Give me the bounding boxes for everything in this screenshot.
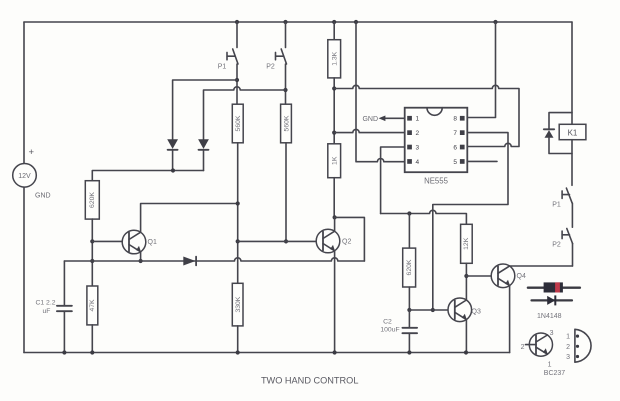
capacitor C2 100uF [380, 310, 417, 353]
transistor BC237 symbol [521, 330, 566, 377]
resistor R4 1K [328, 144, 341, 178]
wire 1.3K bottom to 1K top [333, 78, 335, 144]
resistor R7 330K [232, 283, 243, 326]
diode D1 [167, 139, 178, 170]
wire P2 junction to right diode column (hop over P1 column) [204, 87, 286, 139]
node dot 620K top [407, 211, 411, 215]
node dot top rail P1 [235, 20, 239, 24]
diode 1N4148 package drawing [528, 282, 580, 292]
node dot 330K bottom rail [236, 350, 240, 354]
svg-text:330K: 330K [235, 296, 242, 312]
wire pin 6 right up and left to divider (hops at pin7 col and pin8 col) [334, 85, 519, 146]
wire R1 bottom long column through Q1 collector node and Q2 base node [237, 143, 239, 283]
svg-text:2: 2 [416, 130, 420, 137]
svg-text:GND: GND [362, 116, 378, 123]
node dot x92 y261 [90, 259, 94, 263]
node dot Q2 base (R2 column) [284, 239, 288, 243]
wire Q4 emitter down joins bottom rail end [509, 286, 511, 353]
svg-text:8: 8 [453, 116, 457, 123]
wire left rail lower [23, 187, 25, 352]
svg-text:P1: P1 [218, 64, 227, 71]
svg-text:Q1: Q1 [148, 239, 157, 246]
wire Q4 collector right to relay contacts column [510, 265, 573, 267]
svg-text:12K: 12K [463, 237, 470, 250]
svg-text:P1: P1 [552, 201, 561, 208]
svg-text:BC237: BC237 [544, 370, 566, 377]
wire Q2 base [238, 240, 323, 242]
svg-text:Q4: Q4 [517, 273, 526, 280]
wire K1 bottom to contact P1 [571, 140, 573, 186]
resistor R9 12K [461, 224, 473, 263]
node dot Q2 emitter rail [333, 350, 337, 354]
wire Q3 emitter to rail [465, 320, 467, 353]
svg-text:1: 1 [566, 334, 570, 341]
svg-text:GND: GND [35, 193, 51, 200]
switch P1 pushbutton [218, 22, 238, 104]
relay K1 [559, 124, 586, 139]
node dot Q3 emitter rail [464, 350, 468, 354]
switch contact P1 [552, 188, 572, 208]
svg-text:3: 3 [416, 145, 420, 152]
wire Q2 emitter down to rail [334, 251, 336, 353]
switch P2 pushbutton [266, 22, 286, 104]
wire Q1 emitter down [140, 252, 142, 261]
wire 620K bottom through Q1 base node to 47K [91, 219, 93, 286]
wire pin3 run to 12K (hop at pin7 column) [381, 210, 467, 224]
svg-text:C2: C2 [383, 318, 392, 325]
svg-text:12V: 12V [18, 173, 31, 180]
wire 47K bottom to rail [91, 325, 93, 353]
transistor BC237 package outline [566, 329, 591, 362]
transistor Q3 [448, 298, 481, 322]
svg-text:1N4148: 1N4148 [537, 313, 562, 320]
wire right drop from top rail to K1 [571, 22, 573, 124]
wire 620K bottom to Q3 base wire [408, 287, 410, 310]
source V1 12V [13, 147, 51, 200]
node dot top rail 1.3K [332, 20, 336, 24]
resistor R6 47K [87, 286, 98, 325]
svg-text:K1: K1 [568, 129, 578, 138]
diode D3 on y261 wire [183, 257, 196, 266]
diode D2 [198, 139, 209, 170]
op IC U1 NE555 [405, 108, 468, 186]
wire Q2 collector to junction [334, 217, 336, 231]
svg-text:7: 7 [453, 130, 457, 137]
resistor R2 560K [281, 104, 292, 143]
wire between contacts [571, 203, 573, 227]
transistor Q2 [316, 229, 351, 253]
svg-text:Q2: Q2 [342, 239, 351, 246]
node dot Q1 base [90, 239, 94, 243]
node dot Q1 emitter [139, 259, 143, 263]
svg-text:47K: 47K [89, 299, 96, 312]
wire 1K bottom to Q2 collector node [333, 178, 335, 218]
wire left rail upper [23, 22, 25, 163]
svg-text:uF: uF [43, 308, 51, 315]
svg-text:2: 2 [521, 344, 525, 351]
wire Q3 base [409, 309, 454, 311]
wire pin 2 to divider (hop at pin4 column) [334, 129, 405, 132]
node dot C2 bottom rail [407, 350, 411, 354]
svg-text:1: 1 [548, 362, 552, 369]
wire diode bottoms to 620K top [92, 171, 203, 181]
svg-text:5: 5 [453, 159, 457, 166]
wire pin 5 stub [467, 160, 497, 162]
svg-text:560K: 560K [235, 115, 242, 131]
node dot diode D1 junction [171, 168, 175, 172]
svg-text:3: 3 [566, 354, 570, 361]
pin 1 GND arrow [362, 116, 404, 124]
svg-text:P2: P2 [552, 242, 561, 249]
wire top rail [24, 21, 572, 23]
svg-text:560K: 560K [284, 115, 291, 131]
wire 330K bottom to rail [237, 326, 239, 353]
node dot P2 bottom [283, 88, 287, 92]
svg-text:620K: 620K [406, 259, 413, 275]
wire pin 7 right down and left down to Q3 base node [433, 133, 508, 310]
node dot divider lower (pin2 wire) [332, 131, 336, 135]
node dot 620K bottom [407, 308, 411, 312]
node dot Q2 base left (R1 column) [236, 239, 240, 243]
svg-text:P2: P2 [266, 64, 275, 71]
svg-text:6: 6 [453, 145, 457, 152]
svg-text:TWO HAND CONTROL: TWO HAND CONTROL [261, 375, 359, 385]
svg-text:1K: 1K [332, 156, 339, 165]
wire P1 junction to left diode column [173, 80, 237, 139]
node dot top rail pin8 column [493, 20, 497, 24]
wire y261 from C1 to Q2 box (hops at 330K column and Q2 emitter) [64, 258, 364, 261]
node dot Q4 base tap [464, 274, 468, 278]
resistor R8 620K [403, 214, 416, 288]
resistor R3 1.3K [328, 22, 341, 78]
capacitor C1 2.2uF [35, 261, 71, 353]
wire R2 bottom to Q2 base node [285, 143, 287, 242]
wire contact P2 down to Q4 collector run [572, 244, 574, 266]
wire pin 8 right and up to top rail [467, 22, 495, 118]
svg-text:1.3K: 1.3K [332, 51, 339, 65]
transistor Q4 [491, 264, 526, 288]
svg-text:3: 3 [550, 330, 554, 337]
svg-text:4: 4 [416, 159, 420, 166]
node dot P1 bottom [235, 78, 239, 82]
svg-text:C1 2.2: C1 2.2 [35, 300, 55, 307]
wire Q1 collector up and right to R1 column [141, 204, 238, 233]
wire 12K bottom to Q3 collector [465, 263, 467, 300]
svg-text:2: 2 [566, 344, 570, 351]
node dot 47K bottom rail [90, 350, 94, 354]
svg-text:+: + [29, 147, 35, 158]
svg-text:1: 1 [416, 116, 420, 123]
node dot Q2 collector junction [333, 215, 337, 219]
svg-text:Q3: Q3 [472, 308, 481, 315]
wire pin 4 left and up to top rail (hop at pin3 column) [356, 22, 405, 162]
switch contact P2 [552, 229, 572, 249]
diode D4 freewheel [544, 113, 572, 154]
resistor R1 560K [232, 104, 243, 143]
node dot top rail pin4 column [354, 20, 358, 24]
resistor R5 620K [85, 181, 99, 219]
wire Q4 base [466, 275, 498, 277]
svg-text:100uF: 100uF [380, 326, 399, 333]
node dot top rail P2 [283, 20, 287, 24]
wire bottom rail [24, 352, 510, 354]
svg-text:620K: 620K [89, 192, 96, 208]
node dot Q1 collector R1 column [236, 201, 240, 205]
transistor Q1 [122, 230, 157, 254]
diode 1N4148 symbol [532, 295, 573, 319]
node dot C1 bottom rail [62, 350, 66, 354]
node dot pin7 wire at Q3 base [431, 308, 435, 312]
node dot divider upper (pin6 wire) [332, 86, 336, 90]
wire Q1 base [92, 240, 129, 242]
wire pin 3 left and down [381, 147, 405, 214]
svg-text:NE555: NE555 [424, 177, 449, 186]
wire Q2 collector box right side [335, 217, 365, 261]
